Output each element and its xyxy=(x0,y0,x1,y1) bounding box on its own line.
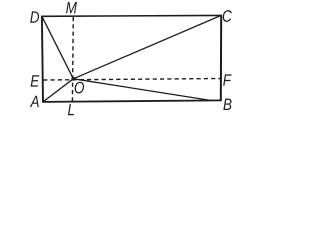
dashed line EF (horizontal through O) xyxy=(43,79,221,81)
dashed line ML (vertical through O) xyxy=(71,17,74,101)
rectangle side CB (right edge) xyxy=(220,15,222,102)
segment AO xyxy=(43,79,73,102)
segment OC xyxy=(73,15,221,78)
segment DO xyxy=(42,16,73,79)
label O xyxy=(75,82,84,94)
label E xyxy=(31,75,40,86)
label M xyxy=(66,2,77,13)
label L xyxy=(68,104,74,115)
label A xyxy=(30,96,39,107)
rectangle side DC (top edge) xyxy=(42,14,221,17)
label D xyxy=(30,11,39,22)
rectangle side DA (left edge) xyxy=(42,16,43,103)
label F xyxy=(223,74,231,85)
rectangle side AB (bottom edge) xyxy=(43,100,221,102)
point O (dot) xyxy=(71,77,75,81)
segment OB xyxy=(73,79,212,101)
label B xyxy=(223,99,231,110)
label C xyxy=(223,10,232,22)
